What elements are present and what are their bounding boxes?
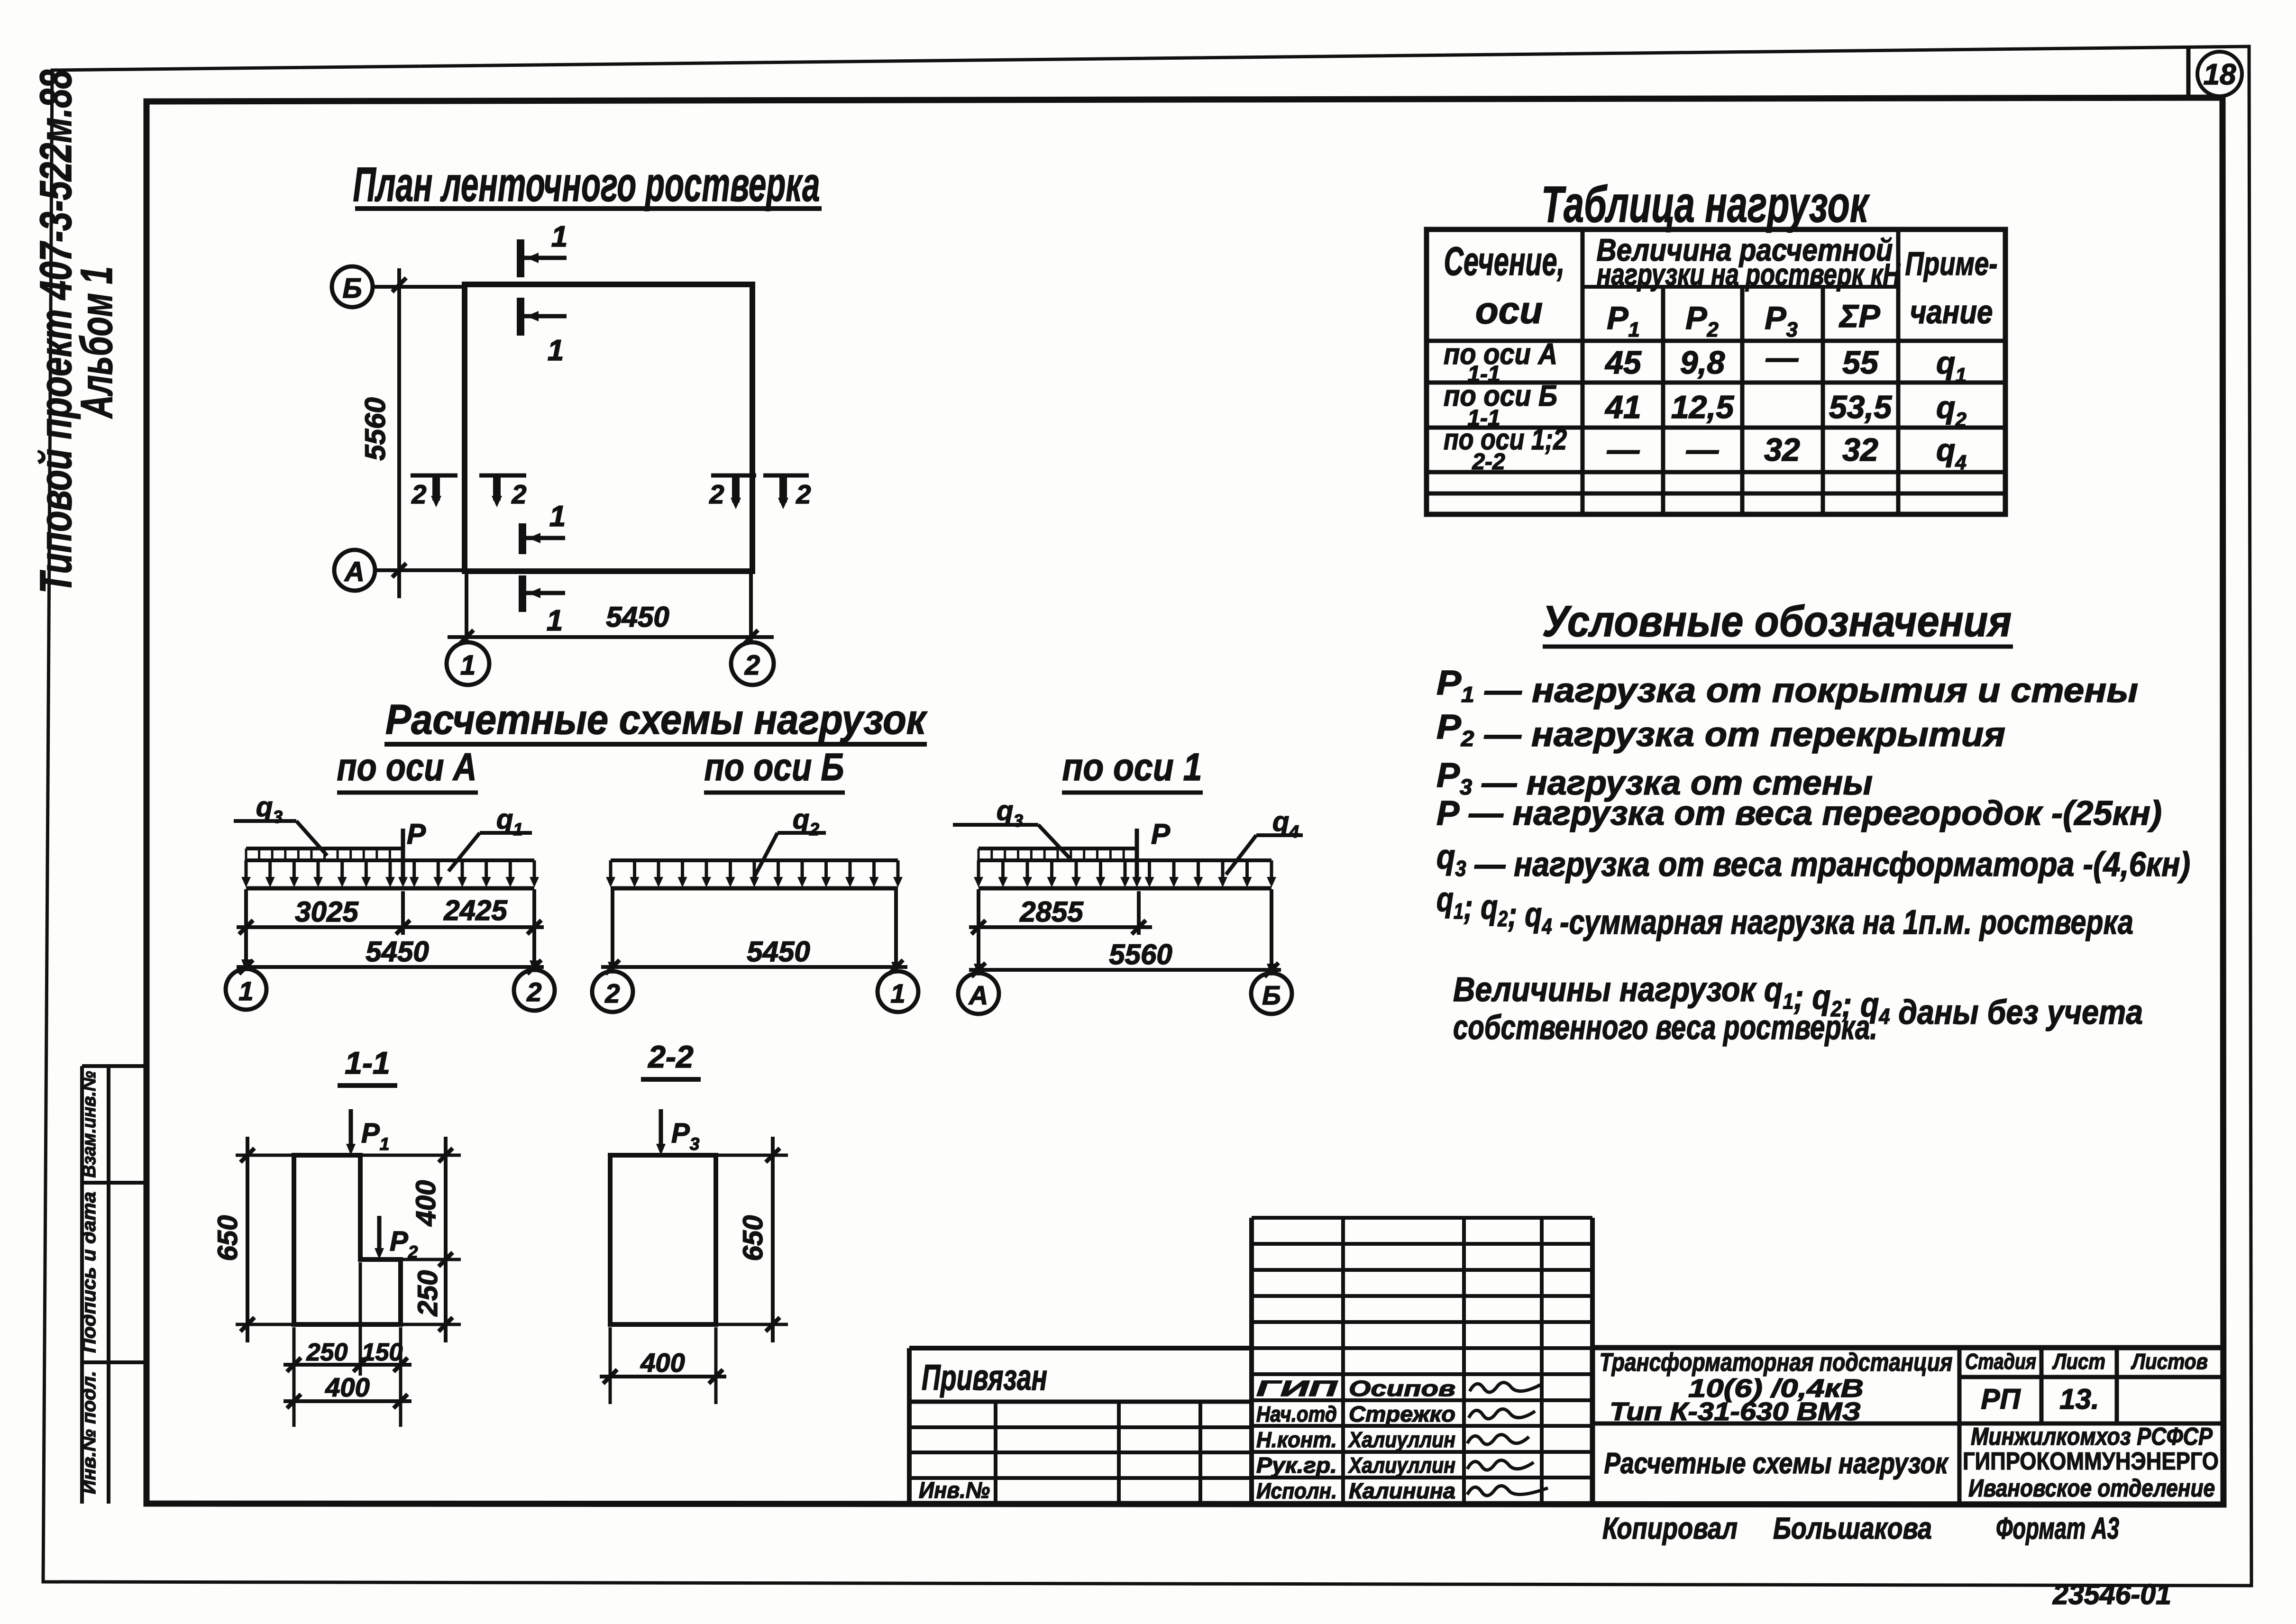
svg-text:Условные обозначения: Условные обозначения	[1542, 597, 2012, 646]
svg-text:1: 1	[890, 978, 905, 1008]
svg-text:5560: 5560	[359, 397, 391, 460]
svg-text:по оси 1: по оси 1	[1062, 746, 1202, 789]
svg-text:Тип К-31-630 ВМЗ: Тип К-31-630 ВМЗ	[1610, 1397, 1861, 1426]
svg-text:Минжилкомхоз РСФСР: Минжилкомхоз РСФСР	[1971, 1423, 2213, 1451]
svg-text:Копировал: Копировал	[1602, 1511, 1738, 1545]
svg-text:Нач.отд: Нач.отд	[1256, 1402, 1337, 1426]
svg-text:1-1: 1-1	[345, 1045, 390, 1080]
svg-text:План ленточного ростверка: План ленточного ростверка	[353, 157, 820, 211]
svg-text:2: 2	[604, 978, 620, 1008]
svg-text:2: 2	[411, 479, 426, 509]
svg-text:Р: Р	[1151, 818, 1171, 850]
svg-text:Н.конт.: Н.конт.	[1256, 1427, 1337, 1452]
svg-text:2-2: 2-2	[1472, 449, 1505, 474]
svg-text:2: 2	[511, 479, 526, 509]
svg-text:чание: чание	[1910, 293, 1993, 330]
svg-text:53,5: 53,5	[1829, 389, 1893, 425]
svg-text:ΣР: ΣР	[1839, 298, 1880, 334]
svg-text:—: —	[1686, 432, 1719, 468]
svg-text:Листов: Листов	[2131, 1349, 2208, 1374]
svg-text:Взам.инв.№: Взам.инв.№	[79, 1071, 100, 1177]
svg-text:Расчетные схемы нагрузок: Расчетные схемы нагрузок	[1604, 1447, 1949, 1480]
svg-text:по оси А: по оси А	[337, 746, 477, 789]
svg-text:12,5: 12,5	[1671, 389, 1735, 425]
svg-text:1: 1	[549, 500, 566, 533]
svg-text:1: 1	[238, 976, 253, 1006]
svg-text:Инв.№ подл.: Инв.№ подл.	[79, 1371, 100, 1494]
svg-text:Рук.гр.: Рук.гр.	[1256, 1453, 1337, 1478]
svg-text:Инв.№: Инв.№	[919, 1478, 990, 1503]
svg-text:400: 400	[325, 1372, 369, 1402]
svg-text:Подпись и дата: Подпись и дата	[79, 1192, 100, 1353]
svg-text:по оси 1;2: по оси 1;2	[1444, 423, 1567, 456]
svg-text:2: 2	[526, 977, 541, 1007]
svg-text:5450: 5450	[606, 601, 669, 633]
svg-text:Формат А3: Формат А3	[1996, 1511, 2119, 1545]
svg-text:Р — нагрузка от веса пере: Р — нагрузка от веса перегородок -(25кн)	[1436, 794, 2162, 832]
svg-text:РП: РП	[1981, 1383, 2021, 1415]
svg-text:Привязан: Привязан	[922, 1358, 1047, 1398]
svg-text:250: 250	[412, 1270, 443, 1317]
svg-text:—: —	[1607, 432, 1640, 468]
svg-text:2: 2	[744, 650, 760, 681]
svg-text:А: А	[968, 980, 988, 1010]
svg-text:1: 1	[548, 334, 564, 367]
svg-text:650: 650	[212, 1215, 243, 1261]
svg-text:Халиуллин: Халиуллин	[1347, 1427, 1455, 1452]
svg-text:32: 32	[1764, 432, 1800, 468]
svg-text:Альбом 1: Альбом 1	[72, 266, 122, 419]
svg-text:по оси Б: по оси Б	[704, 746, 844, 789]
svg-text:2855: 2855	[1019, 896, 1084, 928]
svg-text:Приме-: Приме-	[1905, 245, 1998, 282]
svg-text:1: 1	[551, 220, 567, 253]
svg-text:55: 55	[1842, 345, 1879, 381]
svg-text:Б: Б	[1262, 980, 1281, 1010]
svg-text:45: 45	[1604, 345, 1642, 381]
svg-text:Трансформаторная подстанция: Трансформаторная подстанция	[1600, 1348, 1953, 1377]
svg-text:А: А	[344, 557, 365, 587]
svg-text:по оси Б: по оси Б	[1444, 380, 1557, 412]
svg-text:2-2: 2-2	[647, 1039, 694, 1074]
svg-text:собственного веса ростверка.: собственного веса ростверка.	[1453, 1009, 1877, 1047]
svg-text:650: 650	[738, 1215, 768, 1261]
svg-text:2: 2	[796, 479, 811, 509]
svg-text:2425: 2425	[443, 894, 508, 926]
svg-text:оси: оси	[1475, 289, 1543, 331]
svg-text:Исполн.: Исполн.	[1256, 1478, 1337, 1503]
svg-text:150: 150	[362, 1339, 403, 1366]
svg-text:5450: 5450	[366, 936, 429, 967]
svg-text:Б: Б	[342, 273, 362, 304]
svg-text:18: 18	[2204, 58, 2236, 91]
svg-text:по оси А: по оси А	[1444, 338, 1557, 371]
svg-text:—: —	[1765, 340, 1799, 376]
svg-text:41: 41	[1604, 389, 1641, 425]
svg-text:32: 32	[1842, 432, 1878, 468]
svg-text:Халиуллин: Халиуллин	[1347, 1453, 1455, 1478]
svg-text:1: 1	[460, 650, 476, 681]
svg-text:Р: Р	[407, 818, 426, 850]
svg-text:Стадия: Стадия	[1965, 1349, 2036, 1374]
svg-text:23546-01: 23546-01	[2052, 1578, 2171, 1610]
svg-text:Стрежко: Стрежко	[1349, 1402, 1455, 1426]
svg-text:ГИП: ГИП	[1256, 1376, 1338, 1401]
svg-text:Лист: Лист	[2052, 1349, 2105, 1374]
svg-text:1: 1	[547, 604, 563, 637]
svg-text:3025: 3025	[295, 896, 359, 928]
svg-text:400: 400	[640, 1348, 685, 1378]
svg-text:5450: 5450	[747, 936, 810, 967]
svg-text:13.: 13.	[2059, 1383, 2099, 1415]
svg-text:Таблица нагрузок: Таблица нагрузок	[1541, 175, 1870, 233]
svg-text:400: 400	[411, 1180, 441, 1227]
svg-text:250: 250	[306, 1339, 348, 1366]
svg-text:Сечение,: Сечение,	[1444, 239, 1565, 283]
svg-text:Расчетные схемы нагрузок: Расчетные схемы нагрузок	[385, 696, 928, 743]
svg-text:Ивановское отделение: Ивановское отделение	[1968, 1475, 2215, 1502]
svg-text:5560: 5560	[1109, 939, 1172, 970]
svg-text:Осипов: Осипов	[1349, 1376, 1455, 1401]
svg-text:2: 2	[709, 479, 724, 509]
svg-text:Калинина: Калинина	[1349, 1478, 1455, 1503]
svg-text:ГИПРОКОММУНЭНЕРГО: ГИПРОКОММУНЭНЕРГО	[1963, 1448, 2219, 1475]
svg-text:9,8: 9,8	[1680, 345, 1725, 381]
svg-text:Большакова: Большакова	[1773, 1511, 1932, 1545]
svg-text:нагрузки на ростверк кН: нагрузки на ростверк кН	[1597, 257, 1901, 292]
